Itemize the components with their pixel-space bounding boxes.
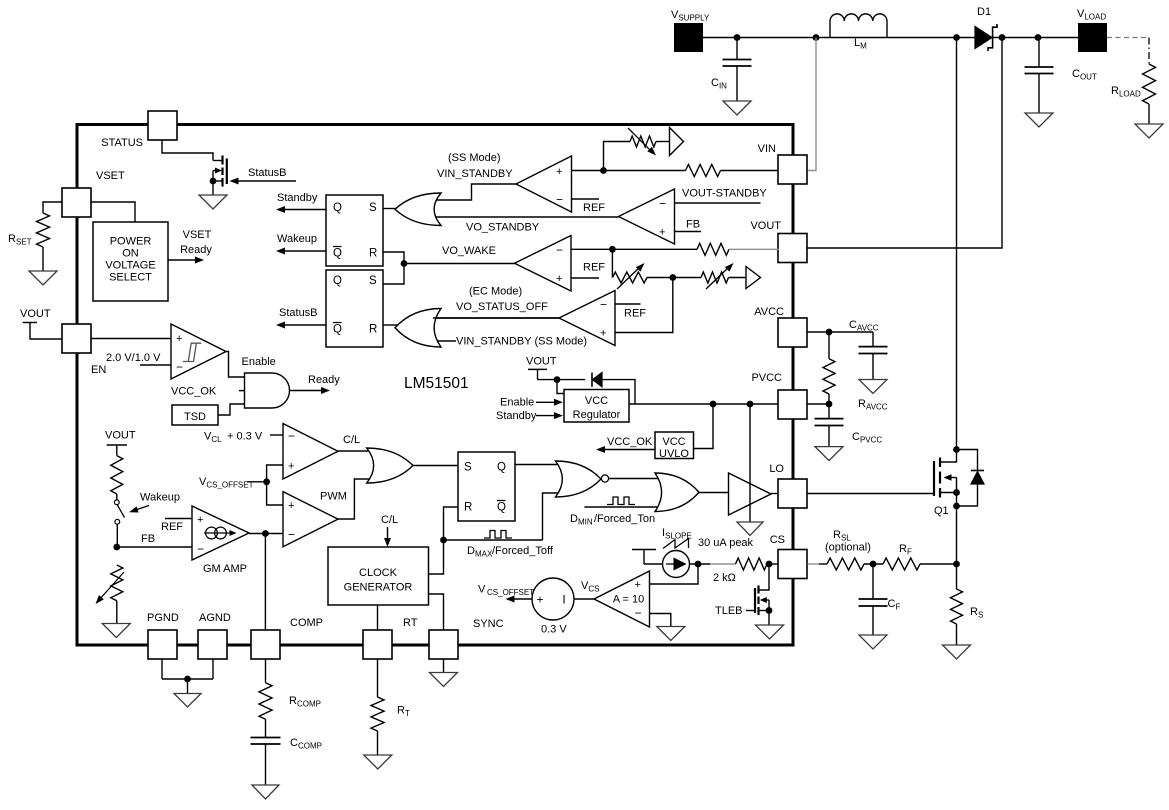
svg-text:VCC_OK: VCC_OK bbox=[607, 436, 653, 448]
wire cavcc drop bbox=[872, 332, 874, 347]
svg-text:REF: REF bbox=[624, 308, 646, 320]
gate OR4 bbox=[655, 473, 699, 512]
svg-text:+: + bbox=[536, 593, 543, 607]
resistor divider lower variable bbox=[111, 565, 123, 601]
svg-text:−: − bbox=[635, 606, 642, 620]
wire R to VIN pin bbox=[721, 170, 779, 172]
svg-text:VCC: VCC bbox=[662, 436, 685, 448]
pulse glyph DMIN bbox=[607, 497, 635, 505]
wire clock to SYNC bbox=[429, 594, 444, 630]
resistor RSET bbox=[37, 213, 50, 247]
wire cavcc gnd bbox=[872, 354, 874, 380]
wire VCC rail bbox=[629, 403, 779, 405]
resistor RLOAD bbox=[1143, 64, 1156, 104]
ground divider bbox=[102, 624, 130, 638]
ground A10 bbox=[657, 627, 685, 641]
wire latch2 R bbox=[383, 324, 398, 326]
wire ravcc top bbox=[828, 332, 830, 359]
svg-text:VO_STANDBY: VO_STANDBY bbox=[466, 222, 540, 234]
wire islope to A10 bbox=[650, 564, 699, 584]
svg-text:VCC: VCC bbox=[585, 395, 608, 407]
svg-text:V: V bbox=[478, 584, 486, 596]
ground M1 bbox=[199, 195, 227, 209]
svg-text:StatusB: StatusB bbox=[279, 307, 318, 319]
driver buffer U11 bbox=[729, 473, 772, 515]
diode D2 vcc bbox=[593, 373, 603, 387]
wire U9 out bbox=[338, 479, 370, 519]
wire thresh2 down bbox=[611, 249, 613, 277]
capacitor CIN bbox=[723, 59, 752, 61]
amp GM AMP bbox=[192, 506, 249, 560]
wire adj2 bbox=[647, 277, 673, 279]
svg-text:VO_STATUS_OFF: VO_STATUS_OFF bbox=[456, 301, 548, 313]
pin PGND bbox=[148, 630, 177, 659]
wire gray to VIN pin bbox=[808, 38, 817, 171]
ground RS bbox=[943, 645, 971, 659]
wire adj2 to U7 plus bbox=[615, 278, 673, 333]
svg-text:PGND: PGND bbox=[147, 612, 179, 624]
wire FB to GMAMP bbox=[117, 546, 192, 548]
signal Ready arrow bbox=[290, 390, 325, 392]
comparator U_EN bbox=[171, 324, 226, 379]
current source ISLOPE bbox=[663, 551, 690, 578]
wire ravcc bot bbox=[828, 394, 830, 404]
wire COUT top bbox=[1038, 38, 1040, 68]
svg-text:−: − bbox=[556, 193, 563, 207]
wire PGND down bbox=[161, 659, 163, 679]
buffer B1 bbox=[670, 128, 684, 156]
svg-text:Regulator: Regulator bbox=[573, 409, 621, 421]
svg-text:Q: Q bbox=[333, 324, 342, 336]
wire U7 out bbox=[433, 317, 559, 319]
junction SW node bbox=[953, 34, 960, 41]
junction FB bbox=[113, 544, 120, 551]
svg-text:VOUT: VOUT bbox=[750, 220, 781, 232]
wire divider to gnd bbox=[116, 601, 118, 624]
wire CF gnd bbox=[872, 606, 874, 635]
svg-text:LM51501: LM51501 bbox=[404, 375, 469, 392]
wire COUT bottom bbox=[1038, 74, 1040, 114]
wire latch1 S bbox=[383, 208, 398, 210]
junction VO_WAKE bbox=[401, 260, 408, 267]
block CLOCK GENERATOR bbox=[328, 547, 429, 605]
svg-text:SYNC: SYNC bbox=[473, 618, 504, 630]
junction vcc rail 1 bbox=[710, 401, 717, 408]
ground TLEB bbox=[756, 625, 784, 639]
sawtooth glyph bbox=[663, 539, 689, 549]
svg-text:VOUT: VOUT bbox=[526, 356, 557, 368]
svg-text:VOLTAGE: VOLTAGE bbox=[105, 260, 155, 272]
svg-text:VOUT-STANDBY: VOUT-STANDBY bbox=[682, 188, 767, 200]
wire RSL to node bbox=[864, 563, 883, 565]
ground CCOMP bbox=[252, 785, 279, 799]
wire StatusB gate bbox=[238, 180, 296, 182]
ground CPVCC bbox=[815, 447, 843, 461]
wire latch1 R to VO_WAKE node bbox=[383, 252, 404, 264]
junction SW-VIN bbox=[813, 34, 820, 41]
wire gray to VOUT pin bbox=[729, 248, 779, 250]
wire OR4 to driver bbox=[699, 492, 729, 494]
block POWER ON VOLTAGE SELECT bbox=[93, 222, 168, 301]
wire VOUT node down bbox=[808, 38, 1003, 249]
wire TSD to AND bbox=[218, 404, 245, 415]
wire VCS_OFFSET bbox=[247, 481, 267, 483]
IC boundary LM51501 bbox=[77, 125, 793, 646]
wire clock to DMAX node bbox=[429, 540, 444, 574]
svg-text:/Forced_Toff: /Forced_Toff bbox=[492, 545, 554, 557]
svg-text:Enable: Enable bbox=[500, 397, 534, 409]
svg-text:/Forced_Ton: /Forced_Ton bbox=[594, 513, 655, 525]
pin RT bbox=[363, 630, 392, 659]
wire VO_WAKE line bbox=[404, 263, 515, 265]
wire vcc to UVLO bbox=[694, 404, 714, 449]
svg-text:(SS Mode): (SS Mode) bbox=[448, 152, 501, 164]
wire PVCC out bbox=[808, 403, 830, 405]
capacitor CF bbox=[859, 598, 888, 600]
svg-text:S: S bbox=[369, 275, 377, 287]
svg-text:VCC_OK: VCC_OK bbox=[171, 386, 217, 398]
svg-text:2.0 V/1.0 V: 2.0 V/1.0 V bbox=[106, 352, 161, 364]
wire RLOAD bottom bbox=[1148, 104, 1150, 124]
svg-text:I: I bbox=[562, 593, 565, 607]
svg-text:0.3 V: 0.3 V bbox=[541, 624, 567, 636]
signal VCC_OK arrow bbox=[602, 449, 655, 451]
wire adj to buffer bbox=[656, 141, 670, 143]
wire dashdot RLOAD top bbox=[1148, 38, 1150, 65]
resistor 2k bbox=[736, 558, 768, 570]
wire U6 minus to VOUT bbox=[571, 248, 697, 250]
svg-text:+: + bbox=[659, 227, 665, 239]
svg-text:VSET: VSET bbox=[183, 229, 212, 241]
block TSD bbox=[172, 405, 218, 425]
wire islope out bbox=[690, 563, 711, 565]
svg-text:2 kΩ: 2 kΩ bbox=[713, 572, 736, 584]
svg-text:EN: EN bbox=[91, 364, 106, 376]
svg-text:−: − bbox=[600, 298, 607, 312]
varistor VO_WAKE adj bbox=[612, 272, 647, 283]
gate OR1 standby bbox=[395, 193, 441, 226]
signal Standby arrow bbox=[282, 209, 326, 211]
wire STATUS pin to M1 drain bbox=[162, 140, 213, 161]
svg-text:Wakeup: Wakeup bbox=[277, 233, 317, 245]
svg-text:−: − bbox=[288, 528, 295, 542]
wire rcomp to ccomp bbox=[265, 719, 267, 737]
svg-text:R: R bbox=[369, 324, 377, 336]
svg-text:S: S bbox=[369, 202, 377, 214]
ground COUT bbox=[1025, 113, 1053, 127]
svg-text:+: + bbox=[600, 328, 606, 340]
svg-text:CS: CS bbox=[770, 534, 785, 546]
resistor RT bbox=[371, 697, 384, 731]
svg-text:30 uA peak: 30 uA peak bbox=[698, 537, 754, 549]
wire vout stub to node bbox=[538, 379, 558, 381]
hysteresis glyph bbox=[183, 343, 201, 362]
svg-text:GENERATOR: GENERATOR bbox=[344, 582, 413, 594]
junction islope bbox=[695, 561, 702, 568]
wire U6 REF stub bbox=[571, 277, 599, 279]
wire to CS pin bbox=[767, 563, 779, 565]
wire latch Q to NOR bbox=[515, 464, 566, 466]
switch wakeup bbox=[114, 500, 119, 505]
wire DMAX line bbox=[444, 539, 543, 541]
varistor VIN_STANDBY adj bbox=[630, 136, 656, 147]
junction gnd tie bbox=[184, 676, 191, 683]
supply stub islope bbox=[632, 549, 656, 551]
wire RSET to gnd bbox=[42, 247, 44, 271]
svg-text:+: + bbox=[556, 273, 562, 285]
svg-text:StatusB: StatusB bbox=[248, 167, 287, 179]
svg-text:+: + bbox=[556, 166, 562, 178]
junction cs node bbox=[766, 561, 773, 568]
svg-text:Wakeup: Wakeup bbox=[140, 492, 180, 504]
wire OR1 in VO_STANDBY bbox=[433, 216, 619, 218]
svg-text:RT: RT bbox=[403, 617, 418, 629]
svg-text:Q: Q bbox=[333, 275, 342, 287]
svg-text:VIN_STANDBY: VIN_STANDBY bbox=[437, 168, 513, 180]
pin AGND bbox=[198, 630, 227, 659]
svg-text:GM AMP: GM AMP bbox=[203, 563, 247, 575]
pulse glyph DMAX bbox=[484, 531, 512, 539]
svg-text:ON: ON bbox=[122, 248, 139, 260]
wire to switch bbox=[116, 494, 118, 500]
svg-text:R: R bbox=[369, 248, 377, 260]
capacitor COUT bbox=[1025, 66, 1054, 68]
wire CIN top bbox=[736, 38, 738, 60]
comparator U4 VIN_STANDBY bbox=[516, 156, 572, 212]
pin CS bbox=[778, 550, 807, 579]
svg-text:AVCC: AVCC bbox=[754, 306, 784, 318]
junction U6 node bbox=[609, 246, 616, 253]
pin VSET bbox=[62, 188, 91, 217]
svg-text:+: + bbox=[635, 579, 641, 591]
source V 0.3V bbox=[532, 578, 574, 620]
wire DMIN line bbox=[584, 506, 667, 508]
svg-text:STATUS: STATUS bbox=[101, 137, 143, 149]
comparator U9 PWM bbox=[283, 492, 338, 547]
transistor M2 TLEB bbox=[757, 586, 759, 594]
svg-text:TLEB: TLEB bbox=[715, 605, 743, 617]
svg-text:R: R bbox=[464, 502, 472, 514]
junction VCS_OFFSET bbox=[263, 478, 270, 485]
wire rt gnd bbox=[377, 731, 379, 755]
svg-text:Ready: Ready bbox=[180, 244, 212, 256]
resistor RF bbox=[883, 558, 920, 570]
diode D3 body bbox=[957, 450, 978, 471]
svg-text:CLOCK: CLOCK bbox=[359, 567, 398, 579]
svg-text:PVCC: PVCC bbox=[751, 372, 782, 384]
wire Q1 source down bbox=[956, 493, 958, 590]
wire adj2 to adj3 bbox=[673, 277, 701, 279]
svg-text:D1: D1 bbox=[977, 6, 991, 18]
svg-text:A = 10: A = 10 bbox=[613, 594, 645, 606]
svg-text:C/L: C/L bbox=[343, 434, 360, 446]
diode D1 bbox=[975, 27, 992, 49]
pin EN bbox=[62, 324, 91, 353]
inductor LM bbox=[830, 14, 887, 38]
svg-text:−: − bbox=[288, 429, 295, 443]
wire U4 plus to VIN bbox=[572, 170, 686, 172]
svg-text:REF: REF bbox=[161, 521, 183, 533]
wire node into regulator bbox=[557, 380, 564, 394]
junction GMAMP out bbox=[262, 530, 269, 537]
wire U5 FB stub bbox=[675, 231, 702, 233]
junction CF bbox=[870, 561, 877, 568]
wire EN comp out to AND bbox=[226, 352, 245, 378]
junction adj2 bbox=[669, 274, 676, 281]
resistor RS bbox=[951, 589, 963, 624]
wire TLEB source gnd bbox=[768, 611, 770, 626]
svg-text:−: − bbox=[556, 243, 563, 257]
wire OR2 in VO_STATUS_OFF bbox=[433, 317, 559, 319]
svg-text:CS_OFFSET: CS_OFFSET bbox=[487, 588, 534, 597]
capacitor CAVCC bbox=[859, 346, 888, 348]
wire CS to RSL bbox=[819, 563, 827, 565]
junction TLEB source bbox=[766, 607, 773, 614]
wire latch R net bbox=[444, 507, 459, 540]
wire NOR to OR4 bbox=[609, 478, 667, 480]
svg-text:Q: Q bbox=[333, 248, 342, 260]
wire switch to FB bbox=[116, 524, 118, 547]
svg-text:Standby: Standby bbox=[496, 410, 537, 422]
wire CIN bottom bbox=[736, 66, 738, 101]
resistor RCOMP bbox=[259, 683, 272, 720]
wire VCS to CL plus bbox=[267, 465, 283, 482]
svg-text:VIN_STANDBY (SS Mode): VIN_STANDBY (SS Mode) bbox=[456, 336, 587, 348]
wire Q1 gate bbox=[808, 493, 935, 495]
amp A10 bbox=[594, 571, 650, 627]
junction CIN bbox=[734, 34, 741, 41]
svg-text:PWM: PWM bbox=[320, 491, 347, 503]
wire thresh up bbox=[604, 142, 631, 171]
comparator U8 C/L bbox=[283, 424, 338, 480]
wire OR3 to latch S bbox=[413, 465, 458, 467]
wire SYNC down bbox=[443, 659, 445, 673]
svg-text:SELECT: SELECT bbox=[109, 272, 152, 284]
comparator U5 VOUT_STANDBY bbox=[619, 189, 675, 244]
resistor R vin sense bbox=[686, 165, 721, 177]
varistor STATUS_OFF adj bbox=[701, 272, 729, 283]
svg-text:+: + bbox=[197, 514, 203, 526]
wire top rail bbox=[703, 37, 1078, 39]
svg-text:C/L: C/L bbox=[381, 514, 398, 526]
wire ccomp gnd bbox=[265, 744, 267, 785]
wire U5 minus stub bbox=[675, 202, 761, 204]
wire RS gnd bbox=[956, 624, 958, 645]
wire to diode bbox=[557, 379, 585, 381]
svg-text:Enable: Enable bbox=[242, 356, 276, 368]
transistor Q1 bbox=[939, 458, 941, 468]
pin VIN bbox=[778, 155, 807, 184]
wire OR2 in VIN_STANDBY_SS bbox=[433, 340, 456, 342]
comparator U6 VO_WAKE bbox=[515, 236, 572, 292]
wire cpvcc gnd bbox=[828, 426, 830, 447]
svg-text:VO_WAKE: VO_WAKE bbox=[442, 245, 496, 257]
svg-text:FB: FB bbox=[686, 219, 700, 231]
svg-text:−: − bbox=[176, 360, 183, 374]
wire A10 minus to gnd bbox=[650, 614, 671, 627]
wire U7 REF stub bbox=[615, 303, 641, 305]
svg-text:−: − bbox=[197, 542, 204, 556]
pin PVCC bbox=[778, 390, 807, 419]
wire OR1 in VIN_STANDBY bbox=[433, 184, 516, 200]
wire A10 out bbox=[574, 598, 594, 600]
svg-text:VSET: VSET bbox=[96, 170, 125, 182]
junction COUT bbox=[1035, 34, 1042, 41]
svg-text:+: + bbox=[288, 461, 294, 473]
svg-text:Q: Q bbox=[497, 502, 506, 514]
block VCC UVLO bbox=[655, 432, 694, 459]
junction VOUT node bbox=[999, 34, 1006, 41]
svg-text:VOUT: VOUT bbox=[20, 308, 51, 320]
junction Q1 source bbox=[953, 489, 960, 496]
pin COMP bbox=[251, 630, 280, 659]
gate U_AND ready bbox=[245, 373, 290, 408]
svg-text:Q1: Q1 bbox=[934, 505, 949, 517]
svg-text:+ 0.3 V: + 0.3 V bbox=[227, 431, 263, 443]
wire REF to GMAMP bbox=[165, 518, 192, 520]
svg-text:Q: Q bbox=[497, 462, 506, 474]
wire AGND down bbox=[212, 659, 214, 679]
svg-text:Standby: Standby bbox=[277, 192, 318, 204]
ground CAVCC bbox=[859, 380, 887, 394]
wire U4 REF stub bbox=[572, 198, 600, 200]
arrow C/L into clock bbox=[387, 527, 389, 541]
signal StatusB arrow bbox=[282, 324, 326, 326]
wire U8 out bbox=[338, 450, 372, 452]
resistor R vout sense bbox=[697, 243, 729, 255]
junction Q1 drain bbox=[953, 446, 960, 453]
ground CIN bbox=[723, 101, 751, 115]
junction vcc rail 2 bbox=[747, 401, 754, 408]
buffer B2 bbox=[746, 267, 761, 289]
svg-text:POWER: POWER bbox=[110, 236, 152, 248]
signal VSET Ready arrow bbox=[168, 259, 199, 261]
wire cs node to TLEB drain bbox=[759, 564, 770, 590]
ground RLOAD bbox=[1135, 124, 1163, 138]
wire RF to RS node bbox=[920, 563, 957, 565]
wire SW to Q1 drain bbox=[956, 38, 958, 450]
signal VCS_OFFSET arrow bbox=[511, 598, 532, 600]
wire COMP net bbox=[264, 534, 266, 631]
ground RSET bbox=[29, 271, 57, 285]
wire VSET to RSET bbox=[43, 202, 62, 213]
wire adj3 to buffer bbox=[729, 277, 747, 279]
wire EN threshold bbox=[140, 364, 171, 366]
wire dashed VLOAD to RLOAD bbox=[1107, 37, 1149, 39]
wire VCC_OK to AND bbox=[239, 390, 245, 392]
wire clock to RT bbox=[377, 605, 379, 630]
ground RT bbox=[364, 755, 392, 769]
junction M1 source bbox=[210, 178, 217, 185]
svg-text:AGND: AGND bbox=[199, 612, 231, 624]
capacitor CPVCC bbox=[815, 418, 844, 420]
wire CF drop bbox=[872, 564, 874, 599]
svg-text:LO: LO bbox=[769, 463, 784, 475]
block VCC Regulator bbox=[564, 390, 629, 423]
junction Q1 source node bbox=[953, 503, 960, 510]
svg-text:VIN: VIN bbox=[758, 143, 776, 155]
wire VCL stub bbox=[270, 434, 283, 436]
ground PGND AGND bbox=[174, 694, 201, 708]
gate OR2 statusoff bbox=[395, 309, 441, 348]
wire diode to vcc node bbox=[602, 380, 635, 404]
svg-text:+: + bbox=[176, 333, 182, 345]
wire PVCC to driver gnd bbox=[749, 404, 751, 522]
svg-text:S: S bbox=[464, 462, 472, 474]
svg-text:REF: REF bbox=[583, 262, 605, 274]
latch U3 statusb bbox=[326, 270, 383, 347]
wire gray CS pin out bbox=[808, 563, 820, 565]
